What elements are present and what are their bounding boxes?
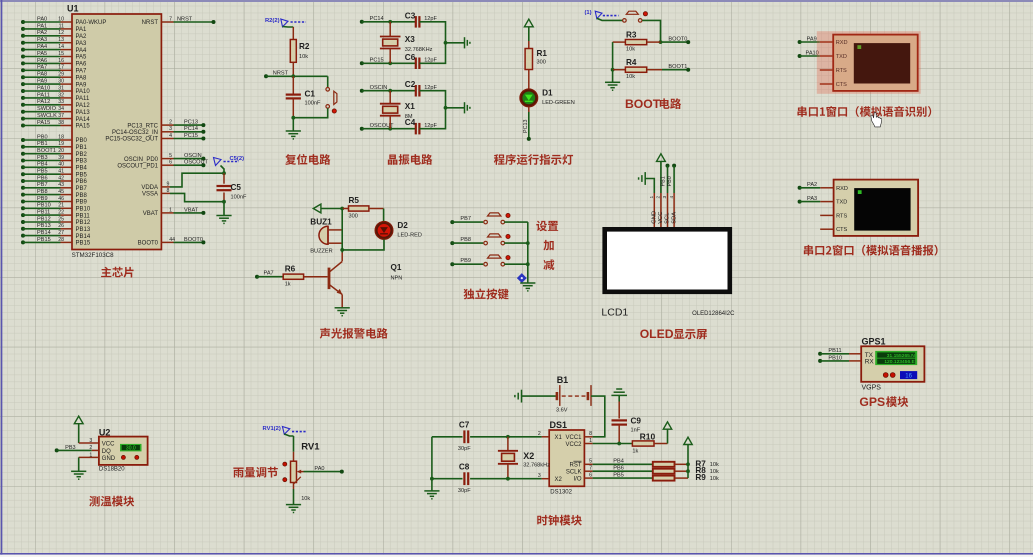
DS1 inside pin names (555, 435, 583, 483)
power symbol pullups (684, 437, 692, 444)
svg-text:PA10: PA10 (806, 50, 819, 56)
wire PC14 (360, 20, 416, 24)
svg-text:CTS: CTS (836, 227, 847, 233)
svg-text:PA12: PA12 (37, 99, 50, 105)
svg-text:10k: 10k (710, 469, 719, 475)
svg-text:C1: C1 (305, 90, 316, 99)
svg-text:B1: B1 (557, 375, 569, 385)
svg-text:PC13: PC13 (523, 120, 529, 134)
wire key PB8 to common (504, 242, 528, 244)
wire net PB13 to U1 pin 26 (21, 223, 64, 231)
svg-text:PA0-WKUP: PA0-WKUP (76, 20, 107, 26)
svg-text:PB13: PB13 (76, 227, 91, 233)
capacitor C4 (416, 123, 420, 134)
svg-text:R1: R1 (537, 49, 548, 58)
svg-text:PB10: PB10 (37, 203, 51, 209)
node PC13 rotated label (523, 120, 529, 134)
svg-text:OSCOUT: OSCOUT (184, 160, 209, 166)
capacitor C6 (416, 58, 420, 70)
R7 labels (695, 459, 719, 468)
wire VCC2 to R10 (593, 442, 633, 446)
svg-text:30pF: 30pF (458, 446, 471, 452)
C4 labels (405, 118, 438, 129)
svg-text:PA1: PA1 (76, 27, 88, 33)
power symbol R10 (663, 422, 671, 429)
svg-text:30pF: 30pF (458, 488, 471, 494)
U1 pin 15 stub (61, 55, 88, 61)
svg-text:PA7: PA7 (76, 69, 88, 75)
svg-text:PB14: PB14 (76, 234, 91, 240)
svg-text:I/O: I/O (573, 476, 581, 482)
svg-text:PC13: PC13 (184, 120, 198, 126)
svg-text:PB11: PB11 (828, 348, 841, 354)
wire net PA1 to U1 pin 11 (21, 23, 64, 31)
wire net PA7 to R6 (255, 271, 283, 279)
U1 pin 12 stub (61, 34, 88, 40)
svg-text:PB12: PB12 (37, 216, 51, 222)
svg-text:(1): (1) (585, 10, 592, 16)
R4 labels (626, 58, 637, 80)
U1 pin 32 stub (61, 96, 90, 102)
annotation 测温模块 (89, 496, 134, 507)
svg-text:NRST: NRST (142, 20, 159, 26)
chip U1 value STM32F103C8 (72, 252, 115, 259)
wire net PA15 to U1 pin 38 (21, 120, 64, 128)
svg-text:PA10: PA10 (76, 89, 91, 95)
wire net PB6 (593, 465, 653, 471)
wire net PB3 to U2 DQ (55, 445, 99, 453)
wire OSCOUT (360, 127, 416, 131)
svg-text:RV1: RV1 (301, 442, 320, 453)
svg-text:PB5: PB5 (37, 169, 48, 175)
capacitor C3 (416, 16, 420, 28)
resistor R5 (342, 206, 383, 211)
svg-text:OLED: OLED (640, 327, 674, 341)
DS1 pin 1 VCC2 (584, 438, 592, 444)
C6 labels (405, 53, 438, 64)
wire net PA0 to U1 pin 10 (21, 16, 64, 24)
svg-text:NPN: NPN (391, 275, 403, 281)
wire button to R3 junction (642, 20, 662, 44)
battery B1 (557, 385, 591, 406)
mouse cursor (871, 112, 882, 127)
wire net PB11 (818, 348, 861, 356)
GPS1 buttons (883, 373, 895, 378)
wire key PB7 to common (504, 221, 528, 223)
wire net PA2 (798, 182, 821, 190)
selection highlight serial 1 (817, 31, 921, 94)
annotation 程序运行指示灯 (494, 154, 573, 165)
U1 pin 44 BOOT0 stub (138, 237, 175, 247)
svg-text:PB9: PB9 (460, 258, 471, 264)
svg-text:PB0: PB0 (667, 176, 673, 186)
LED D2 red (375, 222, 393, 240)
svg-text:5: 5 (589, 459, 592, 465)
ground U2 (71, 471, 86, 479)
svg-text:PB10: PB10 (828, 355, 842, 361)
svg-text:PB7: PB7 (37, 182, 48, 188)
wire net PB4 (593, 459, 653, 465)
svg-text:PB10: PB10 (76, 207, 91, 213)
svg-text:C3: C3 (405, 11, 416, 20)
DS1 pin 5 (584, 459, 592, 465)
svg-text:PB6: PB6 (37, 175, 48, 181)
svg-text:PA8: PA8 (76, 75, 88, 81)
RV1 refdes (301, 442, 320, 453)
LCD1 labels (601, 307, 735, 319)
wire C1 bottom to ground (291, 116, 295, 131)
svg-text:BOOT0: BOOT0 (668, 37, 687, 43)
wire net PC15 (174, 133, 206, 141)
U1 pin 29 stub (61, 75, 88, 81)
U1 pin 39 stub (61, 159, 88, 165)
blue origin marker (517, 273, 527, 283)
svg-text:PA15: PA15 (76, 124, 91, 130)
U1 pin 26 stub (61, 227, 91, 233)
wire net PB12 to U1 pin 25 (21, 216, 64, 224)
node PC14 net label (370, 16, 384, 22)
svg-text:30.0: 30.0 (126, 446, 136, 452)
DS1 value DS1302 (550, 490, 572, 496)
svg-text:RXD: RXD (836, 186, 848, 192)
svg-text:PB15: PB15 (37, 237, 51, 243)
svg-text:PA3: PA3 (76, 41, 88, 47)
svg-text:PA8: PA8 (37, 72, 47, 78)
D2 labels (397, 221, 422, 238)
capacitor C2 (416, 85, 420, 97)
X3 labels (405, 35, 433, 53)
GPS1 value VGPS (862, 385, 882, 392)
push button BOOT (horizontal) (623, 11, 648, 22)
svg-text:VCC2: VCC2 (565, 442, 582, 448)
svg-text:VGPS: VGPS (862, 385, 882, 392)
wire right junction to ground X1 (444, 106, 465, 110)
wire R10 to power (667, 429, 669, 443)
svg-text:PB3: PB3 (65, 445, 76, 451)
svg-text:8M: 8M (405, 114, 413, 120)
U1 pin 2 PC13_RTC stub (127, 120, 173, 130)
svg-text:PA5: PA5 (37, 51, 47, 57)
svg-text:PB4: PB4 (37, 162, 48, 168)
buzzer BUZ1 (319, 226, 342, 244)
DS1 pin 6 (584, 473, 592, 479)
ground keys (520, 283, 535, 291)
wire net PB5 to U1 pin 41 (21, 169, 64, 177)
svg-text:PA7: PA7 (264, 271, 274, 277)
svg-text:LED-RED: LED-RED (397, 232, 422, 238)
svg-text:BOOT1: BOOT1 (668, 64, 687, 70)
wire net PB7 to U1 pin 43 (21, 182, 64, 190)
ground reset circuit (286, 131, 301, 139)
svg-text:PB3: PB3 (76, 159, 88, 165)
DS1 pin 3 X2 (538, 473, 549, 479)
svg-text:R4: R4 (626, 58, 637, 67)
transistor Q1 (329, 250, 342, 308)
svg-text:PA2: PA2 (76, 34, 88, 40)
blue marker (1) (585, 10, 623, 20)
svg-text:10k: 10k (299, 54, 308, 60)
wire ground to battery (522, 395, 556, 397)
svg-text:6: 6 (589, 473, 592, 479)
svg-text:R2(2): R2(2) (265, 18, 280, 24)
svg-text:PA10: PA10 (37, 85, 50, 91)
R9 labels (695, 473, 719, 482)
node junction R5 left (340, 207, 344, 211)
svg-text:OSCOUT_PD1: OSCOUT_PD1 (117, 163, 158, 169)
wire C3 right (419, 22, 445, 43)
node NRST net label (273, 71, 289, 77)
wire net PA10 to U1 pin 31 (21, 85, 64, 93)
U1 pin 33 stub (61, 103, 91, 109)
U1 pin 43 stub (61, 186, 88, 192)
terminal VT1 serial window 1 (820, 35, 918, 91)
X1 labels (405, 102, 415, 120)
svg-text:VBAT: VBAT (143, 211, 159, 217)
svg-text:PB9: PB9 (76, 200, 88, 206)
svg-text:10k: 10k (626, 47, 635, 53)
svg-text:8: 8 (167, 188, 170, 194)
svg-text:32.768KHz: 32.768KHz (405, 47, 433, 53)
X2 labels (523, 451, 550, 469)
wire net PA4 to U1 pin 14 (21, 44, 64, 52)
U1 pin 27 stub (61, 234, 91, 240)
svg-text:PA12: PA12 (76, 103, 91, 109)
wire VDDA to C5 (170, 173, 224, 187)
resistor R9 (653, 476, 688, 481)
svg-text:DS1: DS1 (550, 420, 568, 430)
svg-text:D2: D2 (397, 221, 408, 230)
wire X2 row (432, 477, 542, 481)
U2 display (120, 444, 142, 452)
svg-text:X1: X1 (555, 435, 563, 441)
wire net SWCLK to U1 pin 37 (21, 113, 64, 121)
svg-text:X1: X1 (405, 102, 415, 111)
svg-text:BUZZER: BUZZER (310, 248, 332, 254)
push button reset (vertical) (326, 88, 337, 114)
RV1 value 10k (301, 496, 310, 502)
U1 pin 17 stub (61, 69, 88, 75)
potentiometer RV1 (291, 452, 304, 489)
chip U1 refdes U1 (67, 4, 79, 14)
annotation 时钟模块 (537, 515, 582, 526)
wire net PA0 from RV1 wiper (304, 466, 344, 474)
svg-text:1: 1 (169, 207, 172, 213)
U1 pin 38 stub (61, 124, 91, 130)
wire net PC13 (174, 120, 206, 128)
svg-text:PA3: PA3 (807, 196, 817, 202)
annotation 独立按键 (464, 288, 509, 299)
U1 pin 8 VSSA stub (142, 188, 170, 198)
wire net BOOT1 (662, 64, 690, 72)
annotation GPS模块 (859, 395, 908, 409)
svg-text:100nF: 100nF (305, 101, 321, 107)
svg-text:5: 5 (169, 153, 172, 159)
svg-text:C6: C6 (405, 53, 416, 62)
svg-text:100nF: 100nF (231, 195, 247, 201)
U1 pin 46 stub (61, 200, 88, 206)
wire PC15 (360, 61, 416, 65)
svg-text:PA6: PA6 (37, 58, 47, 64)
R8 labels (695, 466, 719, 475)
svg-text:PB12: PB12 (76, 220, 91, 226)
wire net OSCIN (174, 153, 206, 161)
power symbol for R1 (524, 19, 533, 41)
GPS1 blue display (900, 371, 917, 380)
svg-text:R9: R9 (695, 473, 706, 482)
svg-text:SCL: SCL (665, 212, 671, 224)
svg-text:X2: X2 (523, 451, 534, 461)
svg-text:PB13: PB13 (37, 223, 51, 229)
wire net PA3 (798, 196, 821, 204)
GPS1 pin labels TX RX (865, 352, 875, 365)
wire net PB6 to U1 pin 42 (21, 175, 64, 183)
svg-text:6: 6 (169, 160, 172, 166)
svg-text:8: 8 (589, 431, 592, 437)
svg-text:X2: X2 (555, 477, 563, 483)
DS1 pin 7 (584, 466, 592, 472)
svg-text:1k: 1k (632, 449, 638, 455)
svg-text:PA1: PA1 (37, 23, 47, 29)
resistor R6 (283, 274, 327, 279)
chip DS1 body (549, 430, 584, 486)
wire net PA12 to U1 pin 33 (21, 99, 64, 107)
svg-text:1: 1 (649, 196, 655, 199)
svg-text:STM32F103C8: STM32F103C8 (72, 252, 115, 259)
svg-text:Q1: Q1 (391, 263, 402, 272)
U1 pin 18 stub (61, 138, 88, 144)
svg-text:PA7: PA7 (37, 65, 47, 71)
wire battery to DS1 VCC1 (591, 396, 605, 437)
U1 pin 22 stub (61, 213, 91, 219)
svg-text:BOOT1: BOOT1 (37, 148, 56, 154)
annotation 主芯片 (101, 267, 133, 278)
svg-text:C5: C5 (231, 183, 242, 192)
U1 pin 1 VBAT stub (143, 207, 174, 217)
svg-text:300: 300 (537, 60, 546, 66)
svg-text:RX: RX (865, 358, 875, 365)
svg-text:3.6V: 3.6V (556, 408, 568, 414)
ground OLED (sideways) (639, 172, 655, 193)
wire net PB8 to key (450, 237, 483, 245)
resistor R8 (653, 469, 688, 474)
U1 pin 42 stub (61, 179, 88, 185)
C5 labels (231, 183, 247, 201)
svg-text:1: 1 (589, 438, 592, 444)
wire BUZ1 vertical (341, 209, 343, 250)
svg-text:9: 9 (167, 181, 170, 187)
svg-text:PA15: PA15 (37, 120, 50, 126)
svg-text:PB9: PB9 (37, 196, 48, 202)
wire right junction to ground X3 (444, 41, 465, 45)
svg-text:R10: R10 (640, 431, 656, 441)
U1 pin 9 VDDA stub (141, 181, 170, 191)
ground (sideways) X3 (465, 37, 470, 48)
svg-text:VCC1: VCC1 (565, 435, 582, 441)
capacitor C7 (464, 430, 468, 443)
svg-text:NRST: NRST (177, 16, 193, 22)
svg-text:10k: 10k (301, 496, 310, 502)
R3 labels (626, 31, 637, 53)
node OSCIN net label (370, 85, 388, 91)
wire net PA6 to U1 pin 16 (21, 58, 64, 66)
resistor R10 (632, 441, 667, 446)
svg-text:VCC: VCC (102, 442, 115, 448)
wire net PB4 to U1 pin 40 (21, 162, 64, 170)
annotation 串口2窗口（模拟语音播报） (804, 245, 938, 256)
U1 pin 16 stub (61, 62, 88, 68)
U1 pin 13 stub (61, 41, 88, 47)
svg-text:PA0: PA0 (37, 16, 47, 22)
C2 labels (405, 80, 438, 91)
svg-text:10k: 10k (710, 476, 719, 482)
C1 labels (305, 90, 321, 107)
wire RV1 to ground (293, 489, 295, 505)
ground Q1 emitter (335, 308, 350, 316)
svg-text:PB6: PB6 (613, 465, 624, 471)
resistor R4 (613, 67, 662, 72)
RV1 buttons (283, 462, 287, 482)
wire net PB9 to key (450, 258, 483, 266)
svg-text:RST: RST (570, 463, 582, 469)
U1 pin 14 stub (61, 48, 88, 54)
resistor R3 (613, 40, 661, 45)
svg-text:R3: R3 (626, 31, 637, 40)
blue marker R2(2) (265, 18, 306, 27)
wire net PB9 to U1 pin 46 (21, 196, 64, 204)
svg-text:PB1: PB1 (76, 145, 88, 151)
annotation 雨量调节 (233, 467, 278, 478)
svg-text:PB6: PB6 (76, 179, 88, 185)
svg-text:C2: C2 (405, 80, 416, 89)
svg-text:PB5: PB5 (613, 472, 624, 478)
svg-text:DS1302: DS1302 (550, 490, 572, 496)
wire to RV1 (293, 436, 295, 452)
annotation 声光报警电路 (320, 328, 388, 339)
U1 pin 20 stub (61, 152, 88, 158)
svg-text:OLED12864I2C: OLED12864I2C (692, 311, 735, 317)
svg-text:U1: U1 (67, 4, 79, 14)
crystal X1 (380, 91, 401, 129)
B1 refdes (557, 375, 569, 385)
blue marker C5(2) (214, 156, 245, 173)
svg-text:2: 2 (169, 120, 172, 126)
svg-text:PB8: PB8 (76, 193, 88, 199)
capacitor C9 (612, 395, 628, 443)
wire net PB8 to U1 pin 45 (21, 189, 64, 197)
U1 pin 37 stub (61, 117, 91, 123)
svg-text:PB2: PB2 (76, 152, 88, 158)
sensor U2 body (99, 437, 148, 465)
U2 GND to ground (79, 457, 99, 471)
U1 pin 6 OSCOUT_PD1 stub (117, 160, 173, 170)
wire net PA9 (798, 36, 820, 44)
svg-text:PA6: PA6 (76, 62, 88, 68)
svg-text:PC15-OSC32_OUT: PC15-OSC32_OUT (105, 137, 158, 143)
wire net PB14 to U1 pin 27 (21, 230, 64, 238)
R1 labels (537, 49, 548, 66)
svg-text:PB1: PB1 (37, 141, 48, 147)
svg-text:PA3: PA3 (37, 37, 47, 43)
push button PB8 (484, 234, 510, 245)
wire SDA terminal (672, 164, 676, 193)
U2 buttons (121, 455, 138, 459)
wire net PA3 to U1 pin 13 (21, 37, 64, 45)
U2 pin names (102, 442, 116, 463)
wire net PA11 to U1 pin 32 (21, 92, 64, 100)
wire net PB1 to U1 pin 19 (21, 141, 64, 149)
svg-text:PB0: PB0 (76, 138, 88, 144)
DS1 refdes (550, 420, 568, 430)
